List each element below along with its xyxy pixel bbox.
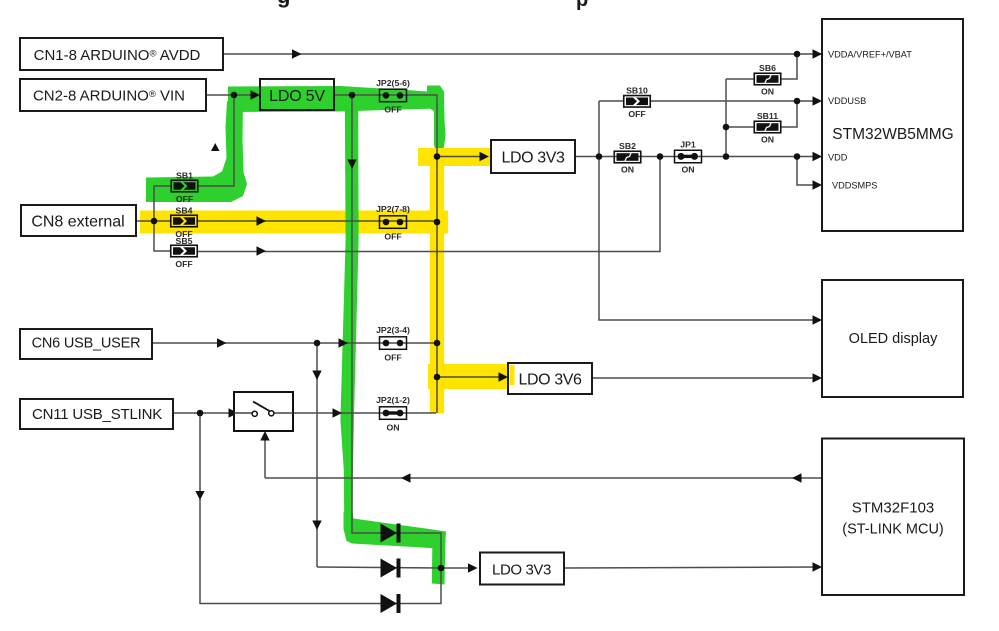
wire AVDD to VDDA [223, 53, 822, 55]
diode D2 [381, 559, 401, 578]
svg-text:JP2(3-4): JP2(3-4) [376, 325, 410, 335]
junction 3V3 rail / SB10 branch [596, 153, 603, 160]
junction 5V column / LDO3V3 feed [434, 153, 441, 160]
svg-text:ON: ON [761, 87, 774, 97]
wire CN6 row [152, 342, 437, 344]
yellow LDO 3V6 feed [428, 364, 513, 389]
svg-text:VDDUSB: VDDUSB [828, 96, 866, 106]
junction 5V rail tap [349, 92, 356, 99]
svg-text:LDO 3V3: LDO 3V3 [492, 562, 551, 579]
arrows (left-pointing) on switch control line [401, 473, 802, 482]
svg-text:LDO 3V6: LDO 3V6 [518, 372, 582, 389]
arrow into LDO 3V3 top [480, 152, 490, 161]
highlight marker: green paths [146, 86, 446, 585]
svg-text:SB2: SB2 [619, 141, 636, 151]
connector box CN11 USB_STLINK [20, 399, 173, 429]
arrow into LDO 5V [251, 90, 261, 99]
svg-text:CN11 USB_STLINK: CN11 USB_STLINK [32, 406, 162, 423]
green SB1 to VIN curve [146, 101, 247, 202]
arrow into VDDSMPS pin [813, 180, 823, 189]
connector box CN6 USB_USER [20, 329, 152, 359]
jumper JP2(5-6) (OFF) [376, 78, 410, 115]
junction 3V3 rail / SB5 branch [657, 153, 664, 160]
junction CN6 node [314, 340, 321, 347]
solder bridge SB2 (ON) [614, 141, 641, 175]
svg-text:OFF: OFF [628, 109, 645, 119]
junction VIN node [231, 92, 238, 99]
svg-text:JP2(7-8): JP2(7-8) [376, 204, 410, 214]
junction VDDA node [794, 51, 801, 58]
arrow into VDD pin [813, 152, 823, 161]
svg-text:JP1: JP1 [680, 140, 696, 150]
wire LDO5V out + vertical to JP2(1-2) row [334, 95, 437, 413]
wire SB11 row [726, 126, 754, 128]
svg-text:JP2(1-2): JP2(1-2) [376, 395, 410, 405]
wire CN8 row [136, 220, 172, 222]
green lower corner vertical [432, 534, 446, 585]
svg-text:STM32F103: STM32F103 [852, 500, 935, 517]
junction 5V column / JP2(3-4) [434, 340, 441, 347]
svg-text:SB1: SB1 [176, 171, 193, 181]
svg-text:STM32WB5MMG: STM32WB5MMG [832, 126, 953, 143]
green top band through LDO 5V [228, 86, 446, 153]
wire SB10 row [599, 100, 624, 102]
arrows (right-pointing) [217, 49, 822, 572]
svg-text:OFF: OFF [175, 259, 192, 269]
wire VDDSMPS branch [797, 157, 820, 186]
svg-text:VDDA/VREF+/VBAT: VDDA/VREF+/VBAT [828, 50, 912, 60]
junction VDDUSB node [794, 98, 801, 105]
regulator box LDO 5V (transparent over green) [260, 79, 334, 110]
junction SB11 left node [723, 124, 730, 131]
arrow down on CN6 branch lower [312, 521, 321, 531]
highlight marker: yellow vertical and feeds [418, 150, 513, 414]
arrow on CN6 row (left) [217, 338, 227, 347]
lone up triangle marker [211, 143, 220, 151]
wire to LDO3V3 [437, 156, 486, 158]
svg-text:g: g [277, 0, 290, 8]
box OLED display [822, 280, 963, 397]
title caption descenders (clipped text at top) [277, 0, 588, 11]
jumper JP2(1-2) (ON) [376, 395, 410, 433]
svg-text:LDO 3V3: LDO 3V3 [501, 150, 565, 167]
wire VIN junction down to SB1 [198, 95, 235, 186]
solder bridge SB1 (OFF) [171, 171, 198, 205]
arrow on AVDD line [292, 49, 302, 58]
arrow into VDDUSB pin [813, 96, 823, 105]
yellow LDO 3V3 feed [418, 148, 496, 166]
arrow on CN8 row [257, 216, 267, 225]
arrow into VDDA pin [813, 49, 823, 58]
arrows (down-pointing) [195, 160, 356, 531]
solder bridge SB10 (OFF) [624, 86, 651, 120]
regulator box LDO 3V3 bottom [480, 553, 564, 585]
arrow left on switch control line (mid) [401, 473, 411, 482]
jumper JP1 (ON) [675, 140, 702, 175]
wire CN11 row [173, 412, 234, 414]
solder bridge SB4 (OFF) [171, 206, 198, 240]
arrow into LDO 3V6 [499, 372, 509, 381]
wire diode2 row [317, 567, 470, 568]
svg-text:SB10: SB10 [626, 86, 648, 96]
jumper JP2(7-8) (OFF) [376, 204, 410, 242]
wire LDO3V3 out to VDD [575, 156, 820, 158]
solder bridge SB11 (ON) [754, 111, 781, 145]
svg-text:ON: ON [386, 423, 399, 433]
arrow into LDO 3V3 bottom [468, 563, 478, 572]
junction 5V column / LDO3V6 feed [434, 374, 441, 381]
box STM32F103 (ST-LINK MCU) [822, 439, 964, 596]
wire switch control from ST-LINK MCU [265, 477, 822, 479]
svg-text:VDDSMPS: VDDSMPS [832, 181, 877, 191]
svg-text:OLED display: OLED display [849, 331, 938, 347]
svg-text:CN6 USB_USER: CN6 USB_USER [32, 336, 141, 352]
svg-text:LDO 5V: LDO 5V [269, 88, 325, 105]
wire LDO5V branch down diode1 row [352, 95, 441, 568]
junction VDD rail / VDDSMPS branch [794, 153, 801, 160]
svg-text:SB6: SB6 [759, 63, 776, 73]
wire vertical x726 [725, 79, 727, 157]
svg-text:CN8 external: CN8 external [31, 214, 124, 231]
yellow marker overlap inside LDO3V6 [510, 365, 515, 385]
wire LDO3V6 feed [437, 376, 505, 378]
arrow left on switch control line (right) [792, 473, 802, 482]
arrow on CN11 row (right) [333, 408, 343, 417]
highlight marker: yellow CN8 external row [140, 211, 448, 234]
svg-text:SB5: SB5 [176, 236, 193, 246]
arrow down on 5V branch [347, 160, 356, 170]
wire LDO3V6 out to OLED [592, 377, 820, 379]
svg-text:OFF: OFF [384, 353, 401, 363]
svg-text:VDD: VDD [828, 153, 848, 163]
svg-text:JP2(5-6): JP2(5-6) [376, 78, 410, 88]
jumper JP2(3-4) (OFF) [376, 325, 410, 363]
regulator box LDO 3V6 [508, 363, 592, 394]
MCU box STM32WB5MMG [822, 19, 963, 231]
svg-text:p: p [576, 0, 588, 11]
junction diode output node [438, 565, 445, 572]
svg-text:OFF: OFF [384, 105, 401, 115]
wire vertical x599 and OLED top feed [599, 101, 820, 320]
switch box (ST-LINK power switch) [234, 392, 293, 431]
wire LDO3V3 bottom out [564, 567, 820, 568]
arrow into STM32F103 [813, 562, 823, 571]
green main vertical [340, 100, 358, 517]
svg-text:CN2-8 ARDUINO® VIN: CN2-8 ARDUINO® VIN [33, 88, 185, 105]
junction 5V column / JP2(7-8) [434, 219, 441, 226]
wire VIN to LDO5V [206, 94, 258, 96]
solder bridge SB5 (OFF) [171, 236, 198, 269]
arrow on CN11 row (left) [229, 408, 239, 417]
wire vertical x200 and diode3 row [200, 413, 441, 604]
arrow down on CN11 branch [195, 491, 204, 500]
svg-text:(ST-LINK MCU): (ST-LINK MCU) [842, 522, 944, 538]
svg-text:CN1-8 ARDUINO® AVDD: CN1-8 ARDUINO® AVDD [34, 47, 201, 64]
arrow on SB5 row [257, 246, 267, 255]
yellow vertical [430, 150, 444, 414]
junction CN11 node [197, 410, 204, 417]
connector box CN1-8 ARDUINO AVDD [20, 38, 223, 70]
wire SB1 left down to SB5 row [154, 186, 172, 251]
connector box CN2-8 ARDUINO VIN [20, 79, 206, 111]
diode D1 [381, 524, 401, 543]
svg-text:OFF: OFF [176, 194, 193, 204]
wire vertical x317 [316, 343, 318, 567]
svg-text:ON: ON [761, 135, 774, 145]
wire SB6 row [726, 78, 754, 80]
wire SB5 row to JP1 left [198, 157, 661, 252]
arrow on CN6 row (right) [339, 338, 349, 347]
svg-text:ON: ON [621, 165, 634, 175]
junction VDD rail / SB6-SB11 branch [723, 153, 730, 160]
svg-text:ON: ON [681, 165, 694, 175]
arrow (up) into switch bottom [260, 431, 269, 441]
svg-text:SB11: SB11 [757, 111, 778, 121]
svg-text:SB4: SB4 [176, 206, 193, 216]
connector box CN8 external [21, 205, 136, 236]
arrow into OLED top pin [813, 315, 823, 324]
arrow into OLED bottom pin [813, 373, 823, 382]
svg-text:OFF: OFF [384, 232, 401, 242]
green diode1 row [344, 512, 447, 549]
arrow down on CN6 branch [312, 371, 321, 381]
regulator box LDO 3V3 top [491, 140, 575, 173]
junction CN8 node [151, 218, 158, 225]
diode D3 [381, 594, 401, 613]
solder bridge SB6 (ON) [754, 63, 781, 97]
